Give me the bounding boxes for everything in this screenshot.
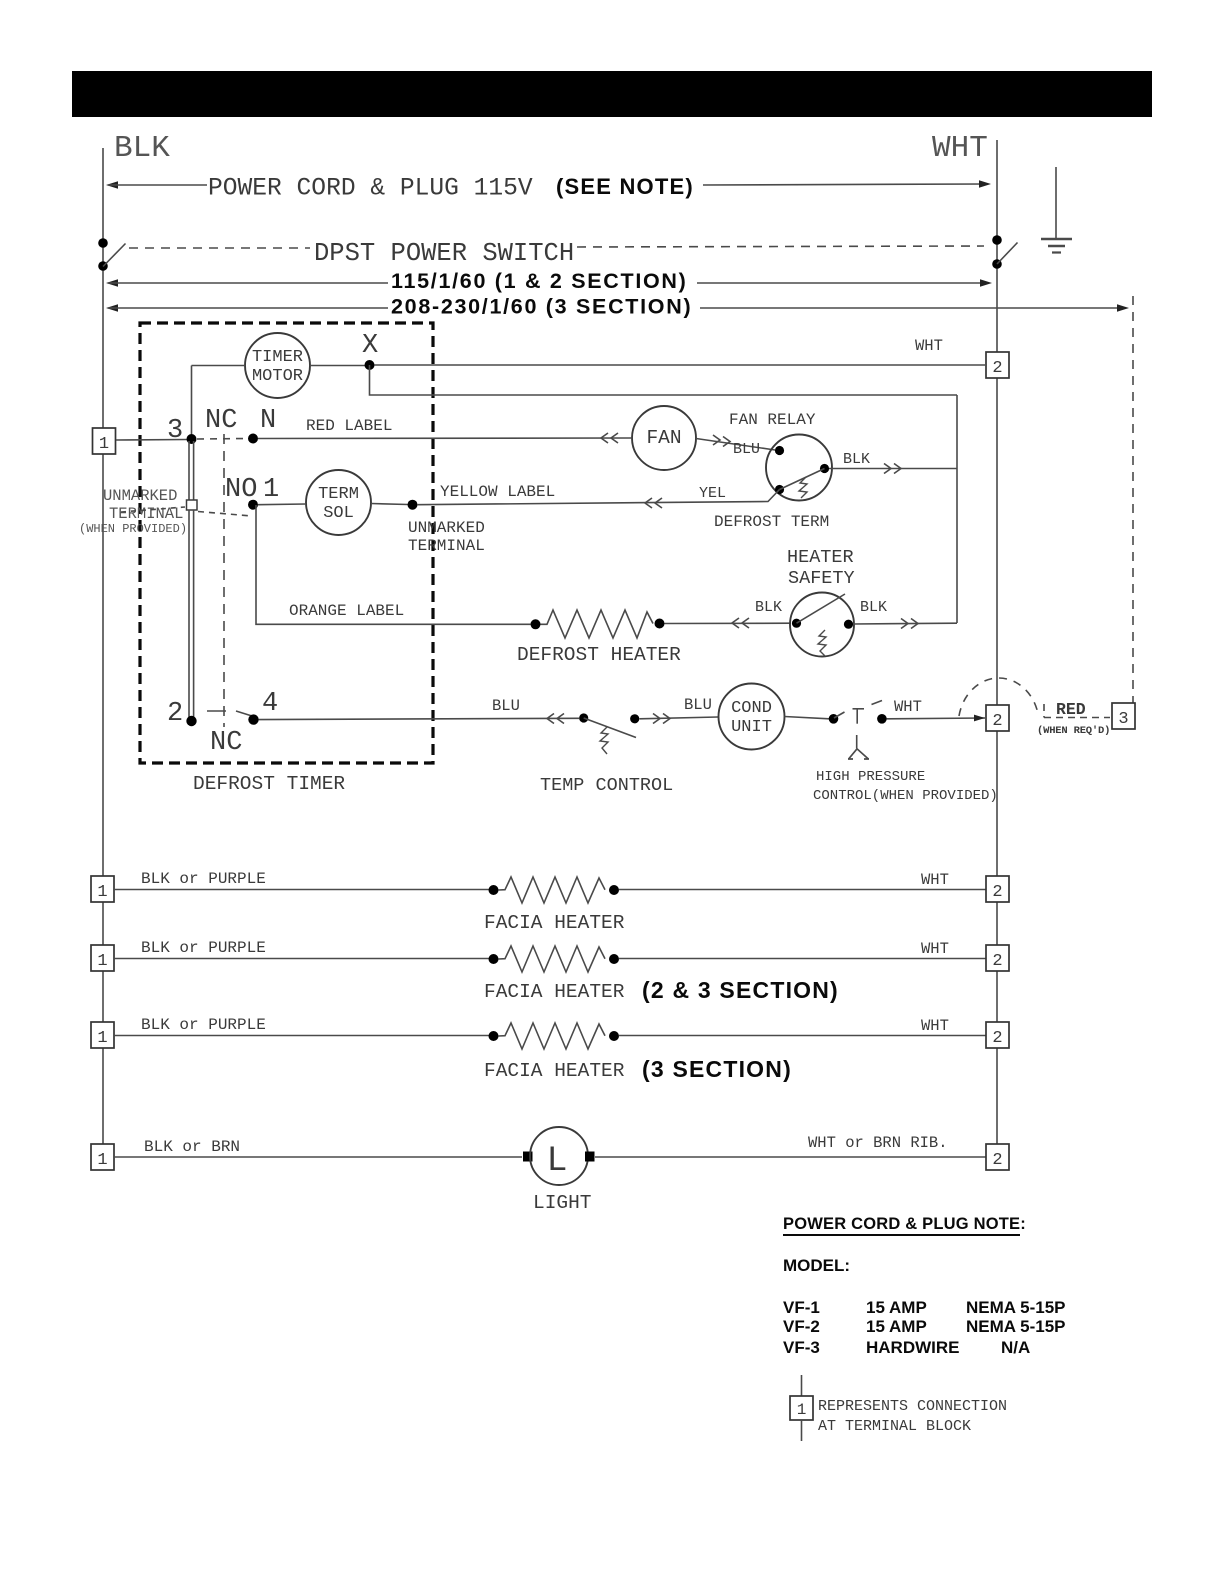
svg-text:NEMA 5-15P: NEMA 5-15P xyxy=(966,1317,1066,1336)
timer motor M1 xyxy=(245,333,310,398)
wire NC contact dashed arm xyxy=(197,438,247,441)
svg-text:BLK or PURPLE: BLK or PURPLE xyxy=(141,870,266,888)
svg-text:2: 2 xyxy=(992,1029,1002,1048)
svg-text:WHT: WHT xyxy=(915,337,943,355)
terminal block 2 (light row) xyxy=(986,1144,1009,1170)
svg-text:FACIA HEATER: FACIA HEATER xyxy=(484,912,625,934)
wire facia heater 1 left xyxy=(114,889,489,891)
svg-text:UNIT: UNIT xyxy=(731,718,772,737)
svg-text:DEFROST TERM: DEFROST TERM xyxy=(714,513,829,531)
svg-text:2: 2 xyxy=(992,1151,1002,1170)
defrost timer enclosure dashed box xyxy=(140,323,433,763)
wire pin2 contact arm xyxy=(207,711,252,716)
svg-text:BLK: BLK xyxy=(114,131,170,166)
svg-text:3: 3 xyxy=(1118,710,1128,729)
node unmarked terminal xyxy=(408,500,418,510)
wire timer motor right lead xyxy=(310,365,365,367)
wire facia heater 3 right xyxy=(619,1035,986,1037)
unmarked terminal square on timer xyxy=(187,500,198,510)
svg-text:N/A: N/A xyxy=(1001,1338,1030,1357)
terminal block 1 (facia heater row 3) xyxy=(91,1022,114,1048)
svg-text:BLK: BLK xyxy=(860,599,887,616)
arrow left chevrons on fan wire xyxy=(601,433,618,443)
svg-text:WHT: WHT xyxy=(894,698,922,716)
wire dashed red jumper elbow xyxy=(1043,704,1045,718)
svg-text:1: 1 xyxy=(97,1151,107,1170)
node NO contact xyxy=(248,500,258,510)
wire facia heater 2 right xyxy=(619,958,986,960)
facia heater R3 xyxy=(489,946,620,972)
terminal block 2 (facia heater row 2) xyxy=(986,945,1009,971)
svg-text:RED LABEL: RED LABEL xyxy=(306,417,392,435)
svg-text:VF-1: VF-1 xyxy=(783,1298,820,1317)
terminal block 1 (facia heater row 1) xyxy=(91,876,114,902)
svg-text:(2 & 3 SECTION): (2 & 3 SECTION) xyxy=(642,977,839,1003)
wire power cord right segment with arrowhead xyxy=(703,180,991,188)
svg-text:MOTOR: MOTOR xyxy=(252,367,303,386)
svg-text:ORANGE LABEL: ORANGE LABEL xyxy=(289,602,404,620)
wire light right xyxy=(595,1156,986,1158)
svg-text:115/1/60 (1 & 2 SECTION): 115/1/60 (1 & 2 SECTION) xyxy=(391,269,688,293)
svg-text:1: 1 xyxy=(97,952,107,971)
legend terminal block symbol xyxy=(790,1375,813,1441)
svg-text:BLU: BLU xyxy=(684,696,712,714)
svg-text:BLK: BLK xyxy=(755,599,782,616)
svg-text:TERM: TERM xyxy=(318,485,359,504)
terminal block 2 (facia heater row 3) xyxy=(986,1022,1009,1048)
label VF-1 row xyxy=(783,1298,1066,1317)
wire timer cam follower double bar upper xyxy=(189,441,194,500)
svg-text:4: 4 xyxy=(262,689,278,719)
wire yellow label to relay with chevrons xyxy=(417,490,780,509)
facia heater R2 xyxy=(489,877,620,903)
svg-text:WHT: WHT xyxy=(921,871,949,889)
node X xyxy=(362,331,378,370)
svg-text:3: 3 xyxy=(167,416,183,446)
svg-text:2: 2 xyxy=(992,712,1002,731)
node N contact xyxy=(248,434,258,444)
label UNMARKED TERMINAL (mid) xyxy=(408,519,485,555)
wire power cord left segment with arrowhead xyxy=(106,181,207,189)
svg-text:DPST POWER SWITCH: DPST POWER SWITCH xyxy=(314,239,574,268)
svg-text:BLK or PURPLE: BLK or PURPLE xyxy=(141,939,266,957)
wire facia heater 3 left xyxy=(114,1035,489,1037)
svg-text:REPRESENTS CONNECTION: REPRESENTS CONNECTION xyxy=(818,1398,1007,1415)
svg-text:DEFROST TIMER: DEFROST TIMER xyxy=(193,773,345,795)
svg-text:N: N xyxy=(260,406,276,436)
svg-text:X: X xyxy=(362,331,378,361)
wire dashed leader to unmarked square xyxy=(121,507,185,512)
terminal block 1 (facia heater row 2) xyxy=(91,945,114,971)
svg-text:HEATER: HEATER xyxy=(787,547,854,568)
pin 3 node xyxy=(167,416,197,446)
svg-text:LIGHT: LIGHT xyxy=(533,1192,592,1214)
svg-text:TIMER: TIMER xyxy=(252,348,303,367)
arrowhead into terminal 2 cond row xyxy=(974,715,985,722)
facia heater R4 xyxy=(489,1023,620,1049)
label POWER CORD & PLUG NOTE heading xyxy=(783,1215,1026,1235)
svg-text:BLK: BLK xyxy=(843,451,870,468)
svg-text:(SEE NOTE): (SEE NOTE) xyxy=(556,174,694,199)
wire temp control to cond unit with chevrons xyxy=(640,714,719,724)
svg-text:WHT: WHT xyxy=(932,131,988,166)
label FACIA HEATER (3 SECTION) xyxy=(484,1056,792,1082)
svg-text:208-230/1/60 (3 SECTION): 208-230/1/60 (3 SECTION) xyxy=(391,295,692,319)
svg-text:YELLOW LABEL: YELLOW LABEL xyxy=(440,483,555,501)
terminal block 2 (facia heater row 1) xyxy=(986,876,1009,902)
svg-text:YEL: YEL xyxy=(699,485,726,502)
svg-text:DEFROST HEATER: DEFROST HEATER xyxy=(517,644,681,666)
svg-text:1: 1 xyxy=(97,883,107,902)
svg-text:FACIA HEATER: FACIA HEATER xyxy=(484,1060,625,1082)
svg-text:UNMARKED: UNMARKED xyxy=(408,519,485,537)
wire orange label riser xyxy=(256,505,531,624)
wire dashed linkage horizontal xyxy=(198,512,252,517)
label FACIA HEATER (2 & 3 SECTION) xyxy=(484,977,839,1003)
ground symbol xyxy=(1041,167,1072,253)
svg-text:VF-2: VF-2 xyxy=(783,1317,820,1336)
svg-text:1: 1 xyxy=(99,435,109,454)
label REPRESENTS CONNECTION AT TERMINAL BLOCK xyxy=(818,1398,1007,1435)
svg-text:TERMINAL: TERMINAL xyxy=(408,537,485,555)
term sol coil xyxy=(306,470,371,535)
label UNMARKED TERMINAL (WHEN PROVIDED) left xyxy=(79,487,187,536)
label VF-3 row xyxy=(783,1338,1030,1357)
wire dashed hop arc over WHT bus xyxy=(959,678,1039,716)
DPST switch right pole xyxy=(992,235,1017,269)
wire inner bus vertical xyxy=(956,395,958,623)
wire right dashed 3-section riser xyxy=(1132,296,1134,703)
svg-text:HIGH PRESSURE: HIGH PRESSURE xyxy=(816,769,925,785)
wire timer cam follower double bar lower xyxy=(189,510,194,718)
fan motor FAN xyxy=(632,406,696,470)
svg-text:2: 2 xyxy=(992,883,1002,902)
wire defrost heater to safety with chevrons xyxy=(665,618,792,628)
label RED (when req'd) xyxy=(1037,700,1110,737)
high pressure control switch S3 xyxy=(829,701,887,760)
svg-text:POWER CORD & PLUG 115V: POWER CORD & PLUG 115V xyxy=(208,176,533,203)
terminal block 1 (timer row) xyxy=(93,428,116,454)
wire 115/1/60 line right with arrowhead xyxy=(697,279,992,287)
wire dashed red jumper to terminal 3 xyxy=(1044,717,1110,719)
svg-text:POWER CORD & PLUG NOTE:: POWER CORD & PLUG NOTE: xyxy=(783,1215,1026,1233)
wire 115/1/60 line left with arrowhead xyxy=(106,279,388,287)
defrost heater R1 xyxy=(531,610,665,638)
svg-text:WHT: WHT xyxy=(921,940,949,958)
wire term sol to unmarked terminal node xyxy=(371,504,408,505)
svg-text:(3 SECTION): (3 SECTION) xyxy=(642,1056,792,1082)
terminal block 1 (light row) xyxy=(91,1144,114,1170)
svg-text:FACIA HEATER: FACIA HEATER xyxy=(484,981,625,1003)
svg-text:TEMP CONTROL: TEMP CONTROL xyxy=(540,775,673,796)
wire pin4 blue lead with chevrons xyxy=(259,714,580,724)
fan relay K1 xyxy=(766,435,832,501)
pin 4 node xyxy=(248,689,278,725)
svg-text:(WHEN REQ'D): (WHEN REQ'D) xyxy=(1037,725,1110,737)
svg-text:COND: COND xyxy=(731,699,772,718)
terminal block 3 xyxy=(1112,703,1135,729)
svg-text:VF-3: VF-3 xyxy=(783,1338,820,1357)
condensing unit xyxy=(719,684,785,750)
wire safety to inner bus with chevrons xyxy=(853,619,957,629)
terminal block 2 (timer row) xyxy=(986,352,1009,378)
wire terminal 1 to pin 3 xyxy=(116,439,187,442)
wire light left xyxy=(114,1156,522,1158)
wire cond unit to pressure switch xyxy=(785,717,830,719)
wire DPST dashed right xyxy=(577,246,984,247)
svg-text:RED: RED xyxy=(1056,700,1086,719)
wire left BLK bus xyxy=(102,148,104,1158)
title bar xyxy=(72,71,1152,117)
wire timer motor left lead xyxy=(192,365,246,367)
wire dashed linkage vertical xyxy=(223,434,225,727)
label HEATER SAFETY xyxy=(787,547,855,589)
svg-text:2: 2 xyxy=(992,952,1002,971)
svg-text:WHT or BRN RIB.: WHT or BRN RIB. xyxy=(808,1134,948,1152)
svg-text:UNMARKED: UNMARKED xyxy=(103,487,177,505)
svg-text:WHT: WHT xyxy=(921,1017,949,1035)
wire 208-230/1/60 line left with arrowhead xyxy=(106,304,388,312)
wire pressure switch to terminal 2 xyxy=(887,717,986,720)
wire relay to inner bus with chevrons xyxy=(829,464,957,474)
label HIGH PRESSURE CONTROL(WHEN PROVIDED) xyxy=(813,769,998,804)
svg-text:BLU: BLU xyxy=(492,697,520,715)
svg-text:SOL: SOL xyxy=(323,504,354,523)
svg-text:MODEL:: MODEL: xyxy=(783,1256,850,1275)
wire N to fan (red label wire) xyxy=(258,437,631,440)
svg-text:15 AMP: 15 AMP xyxy=(866,1298,927,1317)
svg-text:SAFETY: SAFETY xyxy=(788,568,855,589)
wire 208-230/1/60 line right with arrowhead xyxy=(700,304,1129,312)
temp control thermostat S2 xyxy=(579,713,639,754)
svg-text:AT TERMINAL BLOCK: AT TERMINAL BLOCK xyxy=(818,1418,971,1435)
svg-text:BLK or BRN: BLK or BRN xyxy=(144,1138,240,1156)
wire NO to term sol xyxy=(258,503,306,506)
wire facia heater 1 right xyxy=(619,889,986,891)
arrow right chevrons after fan xyxy=(713,435,730,447)
wire facia heater 2 left xyxy=(114,958,489,960)
wire right WHT bus xyxy=(996,140,998,1158)
svg-text:15 AMP: 15 AMP xyxy=(866,1317,927,1336)
svg-text:1: 1 xyxy=(797,1401,807,1419)
svg-text:HARDWIRE: HARDWIRE xyxy=(866,1338,960,1357)
svg-text:NC: NC xyxy=(205,406,237,436)
svg-text:NC: NC xyxy=(210,728,242,758)
wire timer common riser xyxy=(191,366,193,440)
svg-text:1: 1 xyxy=(263,475,279,505)
wire X to terminal 2 WHT xyxy=(375,364,986,366)
svg-text:FAN RELAY: FAN RELAY xyxy=(729,411,816,429)
svg-text:L: L xyxy=(546,1141,567,1181)
svg-text:BLK or PURPLE: BLK or PURPLE xyxy=(141,1016,266,1034)
heater safety thermostat S1 xyxy=(790,593,854,657)
svg-text:(WHEN PROVIDED): (WHEN PROVIDED) xyxy=(79,522,187,536)
svg-text:2: 2 xyxy=(167,699,183,729)
label VF-2 row xyxy=(783,1317,1066,1336)
svg-text:CONTROL(WHEN PROVIDED): CONTROL(WHEN PROVIDED) xyxy=(813,788,998,804)
svg-text:NEMA 5-15P: NEMA 5-15P xyxy=(966,1298,1066,1317)
lamp L1 xyxy=(523,1127,595,1185)
wire DPST dashed left xyxy=(129,247,310,249)
svg-text:BLU: BLU xyxy=(733,441,760,458)
svg-text:1: 1 xyxy=(97,1029,107,1048)
wire X drop to inner bus xyxy=(370,365,958,395)
wire fan to relay contact xyxy=(696,439,775,451)
pin 2 node xyxy=(167,699,197,729)
terminal block 2 (cond row) xyxy=(986,705,1009,731)
svg-text:2: 2 xyxy=(992,359,1002,378)
svg-text:FAN: FAN xyxy=(646,427,681,449)
DPST switch left pole xyxy=(98,238,125,271)
